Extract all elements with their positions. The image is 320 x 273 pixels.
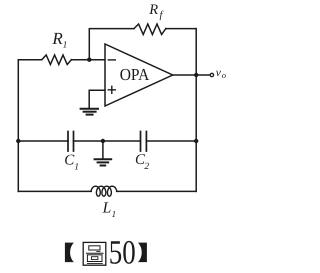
svg-text:1: 1 xyxy=(112,209,117,219)
resistor Rf xyxy=(134,24,166,35)
svg-text:R: R xyxy=(148,2,158,18)
wire: R1 input segment xyxy=(18,59,42,61)
svg-text:50: 50 xyxy=(109,235,136,272)
svg-text:f: f xyxy=(160,10,165,21)
wire: left rail vertical xyxy=(17,60,19,192)
wire: capacitor row left segment xyxy=(18,140,68,142)
node E: right rail / cap row junction xyxy=(194,139,198,143)
op-amp inverting pin minus sign xyxy=(108,59,115,61)
wire: op-amp output to right rail xyxy=(173,74,197,76)
wire: R1 to inverting input xyxy=(71,59,105,61)
wire: cap row C1 to C2 xyxy=(74,140,141,142)
svg-text:L: L xyxy=(102,199,112,216)
wire: cap row C2 to right rail xyxy=(146,140,196,142)
svg-text:R: R xyxy=(51,29,63,48)
wire: top-right feedback segment xyxy=(166,28,196,30)
caption bracket left xyxy=(65,243,74,263)
wire: right rail vertical xyxy=(195,29,197,192)
wire: bottom left segment xyxy=(18,190,91,192)
ground G1 (op-amp + input) xyxy=(81,109,98,115)
node D: middle ground junction xyxy=(101,139,105,143)
inductor L1 xyxy=(91,186,117,196)
node B: output junction xyxy=(194,73,198,77)
ground G2 (cap midpoint) xyxy=(95,159,112,165)
wire: riser and top-left feedback segment xyxy=(89,29,134,60)
node C: left rail / cap row junction xyxy=(16,139,20,143)
wire: bottom right segment xyxy=(117,190,197,192)
node A: feedback junction xyxy=(87,58,91,62)
capacitor C1 xyxy=(68,132,74,152)
caption glyph tu (figure) xyxy=(83,242,106,265)
terminal vo circle xyxy=(210,73,213,76)
svg-text:o: o xyxy=(222,70,226,80)
wire: middle ground stem xyxy=(102,141,104,159)
capacitor C2 xyxy=(141,132,147,152)
wire: non-inverting input to ground xyxy=(89,90,105,108)
op-amp non-inverting pin plus sign xyxy=(108,86,115,93)
wire: output stub to terminal xyxy=(196,74,210,76)
svg-text:1: 1 xyxy=(74,163,79,173)
resistor R1 xyxy=(42,55,72,65)
svg-text:OPA: OPA xyxy=(120,65,150,84)
caption bracket right xyxy=(138,243,147,263)
svg-text:2: 2 xyxy=(144,162,149,172)
op-amp U1 xyxy=(105,44,173,106)
svg-text:1: 1 xyxy=(63,41,68,51)
